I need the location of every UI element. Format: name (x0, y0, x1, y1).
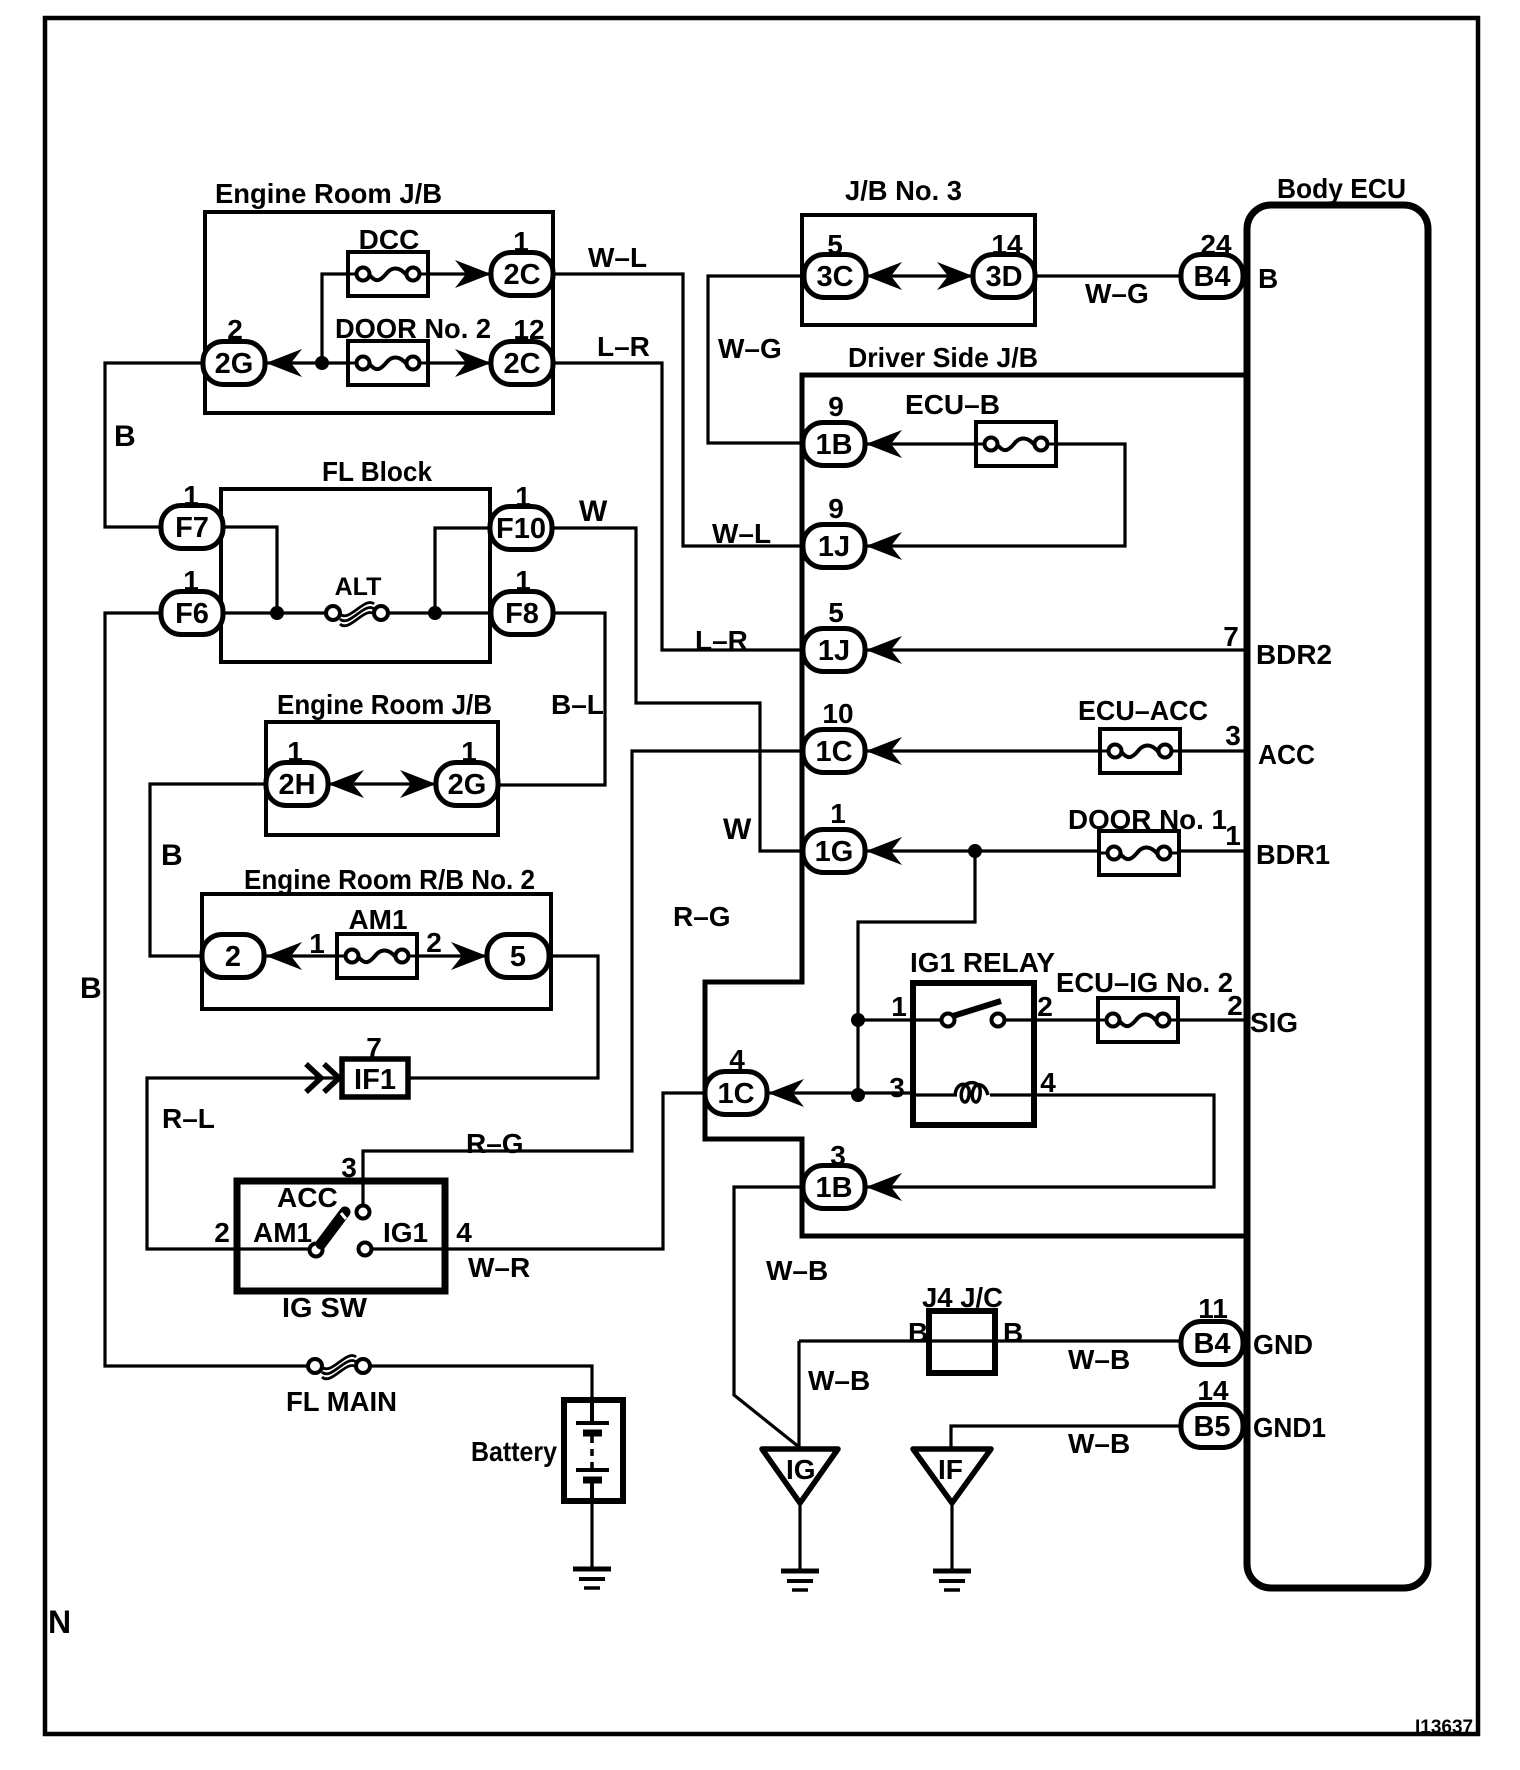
svg-text:F6: F6 (175, 598, 209, 630)
svg-text:Engine Room J/B: Engine Room J/B (277, 689, 492, 720)
wire DOOR No.2 to 2C pin 12 (428, 361, 491, 364)
ground (IG) (781, 1571, 819, 1590)
arrow into 3C (866, 262, 902, 290)
wire DCC branch (266, 274, 350, 363)
wire relay pin 4 loop to 1B pin 3 (866, 1095, 1214, 1187)
arrow into connector 2 (266, 942, 302, 970)
wire B through J4 J/C (to B4 pin 11) (799, 1339, 1181, 1342)
junction block: FL Block (221, 456, 490, 662)
svg-text:1J: 1J (818, 635, 850, 667)
svg-text:2: 2 (1227, 990, 1243, 1021)
fusible link ALT (326, 573, 388, 626)
svg-text:R–G: R–G (673, 901, 731, 932)
wire ECU-ACC fuse to ECU (1180, 749, 1244, 752)
svg-text:DCC: DCC (359, 224, 420, 255)
svg-text:1: 1 (513, 226, 529, 257)
svg-text:DOOR No. 1: DOOR No. 1 (1068, 804, 1227, 835)
svg-text:5: 5 (510, 941, 526, 973)
svg-text:1C: 1C (717, 1078, 754, 1110)
connector 1J pin 5 (803, 597, 902, 672)
wire IF triangle to ground (950, 1503, 953, 1569)
wire B-L (F8 to 2G) (497, 613, 605, 785)
switch IG SW (214, 1181, 472, 1323)
svg-text:1J: 1J (818, 531, 850, 563)
svg-text:1: 1 (183, 480, 199, 511)
wire ECU-B fuse to 1J pin 9 (866, 444, 1125, 546)
wire W-L (2C pin1 to 1J) (553, 274, 802, 546)
svg-text:W–R: W–R (468, 1252, 530, 1283)
svg-text:1: 1 (461, 736, 477, 767)
wire DOOR No.1 fuse to ECU (1178, 849, 1244, 852)
fuse ECU-IG No. 2 (1056, 967, 1233, 1042)
wire W-B (1B pin 3 to IG triangle) (734, 1187, 803, 1447)
connector F8 pin 1 (491, 565, 553, 635)
wire IG triangle to ground (798, 1503, 801, 1569)
connector 3C pin 5 (804, 229, 866, 298)
wire BDR2 (1J pin5 to ECU) (866, 648, 1244, 651)
svg-text:24: 24 (1200, 229, 1232, 260)
svg-text:2: 2 (227, 314, 243, 345)
svg-text:1C: 1C (815, 736, 852, 768)
connector 1C pin 4 (705, 1044, 804, 1115)
wire feed to IF1 chevrons (R-L) (147, 1078, 340, 1249)
connector 1B pin 3 (803, 1140, 902, 1209)
svg-text:11: 11 (1198, 1293, 1228, 1324)
wire 2H to 2G (328, 782, 436, 785)
svg-text:3: 3 (889, 1072, 905, 1103)
junction block: J/B No. 3 (802, 175, 1035, 325)
svg-text:R–L: R–L (162, 1103, 215, 1134)
svg-text:B: B (80, 972, 102, 1005)
svg-text:DOOR No. 2: DOOR No. 2 (335, 313, 491, 344)
svg-text:1: 1 (287, 736, 303, 767)
ECU: Body ECU outline (1247, 173, 1428, 1588)
arrow into connector 5 (451, 942, 487, 970)
junction block: Engine Room R/B No. 2 (202, 864, 551, 1009)
svg-text:B4: B4 (1193, 1328, 1230, 1360)
wire 3C to 3D (866, 274, 973, 277)
svg-text:AM1: AM1 (348, 904, 407, 935)
svg-text:14: 14 (991, 229, 1023, 260)
wire F10 internal (435, 528, 490, 613)
svg-text:4: 4 (1040, 1067, 1056, 1098)
wire W (F10 to 1G) (553, 528, 802, 851)
svg-text:B: B (114, 420, 136, 453)
ground point IG (762, 1449, 838, 1503)
svg-text:ACC: ACC (277, 1182, 338, 1213)
fusible link IF1 pin 7 (306, 1032, 408, 1097)
connector B4 pin 24 (1181, 229, 1243, 298)
fuse DOOR No. 2 (335, 313, 491, 385)
ground point IF (913, 1449, 991, 1503)
svg-text:1B: 1B (815, 1172, 852, 1204)
wire R-G branch (BDR1 junction to IG1 relay) (858, 851, 975, 1095)
wire ECU-IG fuse to ECU (SIG) (1178, 1018, 1244, 1021)
arrow into 2C pin 12 (455, 349, 491, 377)
svg-text:3C: 3C (816, 261, 853, 293)
svg-text:L–R: L–R (597, 331, 650, 362)
svg-text:B–L: B–L (551, 689, 604, 720)
svg-text:1: 1 (515, 565, 531, 596)
svg-text:ECU–IG No. 2: ECU–IG No. 2 (1056, 967, 1233, 998)
svg-text:B: B (161, 839, 183, 872)
wire 1C pin10 to ECU-ACC fuse (866, 749, 1100, 752)
wire B (2H to connector 2) (150, 784, 266, 956)
svg-text:F10: F10 (496, 513, 546, 545)
svg-text:5: 5 (828, 597, 844, 628)
fuse DCC (348, 224, 428, 296)
connector F10 pin 1 (490, 481, 552, 550)
svg-text:3D: 3D (985, 261, 1022, 293)
arrow into 2G (400, 770, 436, 798)
fusible link FL MAIN (286, 1355, 397, 1417)
connector 1J pin 9 (803, 493, 902, 568)
connector B4 pin 11 (1181, 1293, 1243, 1365)
connector 2C pin 12 (491, 314, 553, 385)
junction dot FL right (428, 606, 442, 620)
svg-text:Engine Room R/B No. 2: Engine Room R/B No. 2 (244, 864, 535, 895)
svg-text:Body ECU: Body ECU (1277, 173, 1406, 204)
svg-text:BDR1: BDR1 (1256, 839, 1330, 870)
connector F6 pin 1 (161, 565, 223, 635)
junction block: Engine Room J/B (second) (266, 689, 498, 835)
svg-text:3: 3 (830, 1140, 846, 1171)
svg-text:B: B (1258, 263, 1278, 294)
svg-text:5: 5 (827, 229, 843, 260)
svg-text:FL Block: FL Block (322, 456, 432, 487)
svg-text:2H: 2H (278, 769, 315, 801)
wire relay coil to 1C pin 4 (768, 1091, 913, 1094)
wire ALT row (F6 to F8) (223, 611, 490, 614)
svg-text:1G: 1G (815, 836, 854, 868)
svg-text:IG SW: IG SW (282, 1292, 368, 1323)
svg-text:B: B (1003, 1317, 1023, 1348)
svg-text:IG1 RELAY: IG1 RELAY (910, 947, 1055, 978)
svg-text:9: 9 (828, 493, 844, 524)
svg-text:10: 10 (822, 698, 853, 729)
wire L-R (2C pin12 to 1J) (553, 363, 802, 650)
svg-text:Engine Room J/B: Engine Room J/B (215, 178, 442, 209)
wire 1B to ECU-B fuse (866, 442, 976, 445)
svg-text:IF: IF (938, 1454, 963, 1485)
wire 1G pin1 to DOOR No.1 fuse (866, 849, 1100, 852)
svg-text:1: 1 (1225, 820, 1241, 851)
svg-text:7: 7 (366, 1032, 382, 1063)
svg-text:B4: B4 (1193, 261, 1230, 293)
junction connector J4 J/C (908, 1282, 1023, 1373)
svg-text:I13637: I13637 (1415, 1717, 1473, 1738)
wire DCC to 2C pin 1 (428, 272, 491, 275)
svg-text:2G: 2G (448, 769, 487, 801)
svg-text:W–G: W–G (718, 333, 782, 364)
connector B5 pin 14 (1181, 1375, 1243, 1448)
svg-text:W–L: W–L (712, 518, 771, 549)
ground (IF) (933, 1571, 971, 1590)
svg-text:W–B: W–B (1068, 1428, 1130, 1459)
connector 2G pin 2 (203, 314, 265, 385)
svg-text:N: N (48, 1604, 71, 1640)
svg-text:14: 14 (1197, 1375, 1229, 1406)
svg-text:BDR2: BDR2 (1256, 639, 1332, 670)
connector 1C pin 10 (803, 698, 902, 773)
svg-text:7: 7 (1223, 621, 1239, 652)
svg-text:J/B No. 3: J/B No. 3 (845, 175, 962, 206)
junction block: Driver Side J/B (705, 342, 1244, 1236)
svg-text:B5: B5 (1193, 1411, 1230, 1443)
svg-text:2C: 2C (503, 259, 540, 291)
arrow into 2H (328, 770, 364, 798)
svg-text:ECU–B: ECU–B (905, 389, 1000, 420)
wire W-G (3D to B4) (1035, 274, 1181, 277)
svg-text:1: 1 (891, 991, 907, 1022)
svg-text:9: 9 (828, 391, 844, 422)
junction dot FL left (270, 606, 284, 620)
wire F7 internal (223, 527, 277, 613)
svg-text:1: 1 (183, 565, 199, 596)
junction dot on BDR1 wire (968, 844, 982, 858)
svg-text:ACC: ACC (1258, 739, 1315, 770)
svg-text:SIG: SIG (1250, 1007, 1298, 1038)
svg-text:W: W (579, 495, 608, 528)
wire to relay pin 1 (858, 1018, 941, 1021)
svg-text:W–B: W–B (766, 1255, 828, 1286)
svg-text:F7: F7 (175, 512, 209, 544)
wire W-G (3C to 1B) (708, 276, 802, 443)
wire W-R (IG SW IG1 to 1C pin 4) (372, 1093, 705, 1249)
connector 2G pin 1 (436, 736, 498, 806)
wire AM1 fuse to 5 (417, 954, 487, 957)
svg-text:ALT: ALT (335, 573, 382, 601)
arrow into 2C pin 1 (455, 260, 491, 288)
svg-text:1: 1 (515, 481, 531, 512)
wire R-G (IG SW ACC to 1C pin 10) (363, 751, 803, 1205)
svg-text:1B: 1B (815, 429, 852, 461)
svg-text:W–B: W–B (1068, 1344, 1130, 1375)
junction dot at relay pin 1 (851, 1013, 865, 1027)
svg-text:B: B (908, 1317, 928, 1348)
svg-text:1: 1 (830, 798, 846, 829)
fuse AM1 (309, 904, 442, 978)
fuse ECU-B (905, 389, 1056, 466)
svg-text:2: 2 (225, 941, 241, 973)
svg-text:FL MAIN: FL MAIN (286, 1386, 397, 1417)
connector 1B pin 9 (803, 391, 902, 466)
wire W-B (J4 J/C down to IG triangle) (797, 1341, 800, 1447)
fuse DOOR No. 1 (1068, 804, 1227, 875)
svg-text:J4 J/C: J4 J/C (922, 1282, 1003, 1313)
junction dot (DCC/DOOR branch) (315, 356, 329, 370)
junction block: Engine Room J/B (top) (205, 178, 553, 413)
svg-text:W–G: W–G (1085, 278, 1149, 309)
svg-text:2: 2 (426, 927, 442, 958)
wire 5 to IF1 (410, 956, 598, 1078)
svg-text:2: 2 (1037, 991, 1053, 1022)
relay IG1 RELAY (889, 947, 1098, 1125)
fuse ECU-ACC (1078, 695, 1208, 773)
svg-text:ECU–ACC: ECU–ACC (1078, 695, 1208, 726)
svg-text:L–R: L–R (695, 625, 748, 656)
wire 2 to AM1 fuse (266, 954, 337, 957)
connector 2 (202, 935, 264, 978)
svg-text:IG: IG (786, 1454, 816, 1485)
connector 2C pin 1 (491, 226, 553, 296)
svg-text:GND1: GND1 (1253, 1412, 1326, 1443)
connector 3D pin 14 (973, 229, 1035, 298)
wire B (2G to F7) (105, 363, 203, 527)
svg-text:F8: F8 (505, 598, 539, 630)
ground (battery) (573, 1569, 611, 1588)
connector 5 (487, 935, 549, 978)
battery (471, 1400, 623, 1501)
wire B (F6 to FL MAIN to battery) (105, 613, 592, 1400)
junction dot at relay pin 3 (851, 1088, 865, 1102)
arrow into 3D (937, 262, 973, 290)
svg-text:W: W (723, 813, 752, 846)
svg-text:2G: 2G (215, 348, 254, 380)
svg-text:IG1: IG1 (383, 1217, 428, 1248)
svg-text:R–G: R–G (466, 1128, 524, 1159)
svg-text:W–B: W–B (808, 1365, 870, 1396)
connector 1G pin 1 (803, 798, 902, 873)
svg-text:IF1: IF1 (354, 1064, 396, 1096)
svg-text:3: 3 (1225, 720, 1241, 751)
svg-text:4: 4 (456, 1217, 472, 1248)
svg-text:2C: 2C (503, 348, 540, 380)
svg-text:1: 1 (309, 928, 325, 959)
svg-text:12: 12 (513, 314, 544, 345)
svg-text:GND: GND (1253, 1329, 1313, 1360)
svg-text:Battery: Battery (471, 1436, 557, 1467)
connector F7 pin 1 (161, 480, 223, 549)
svg-text:Driver Side J/B: Driver Side J/B (848, 342, 1038, 373)
wire battery to ground (590, 1501, 593, 1569)
svg-text:AM1: AM1 (253, 1217, 312, 1248)
wire W-B (B5 pin 14 to IF triangle) (951, 1426, 1181, 1447)
svg-text:W–L: W–L (588, 242, 647, 273)
svg-text:2: 2 (214, 1217, 230, 1248)
connector 2H pin 1 (266, 736, 328, 806)
svg-text:4: 4 (729, 1044, 745, 1075)
arrow into 2G pin 2 (266, 349, 302, 377)
